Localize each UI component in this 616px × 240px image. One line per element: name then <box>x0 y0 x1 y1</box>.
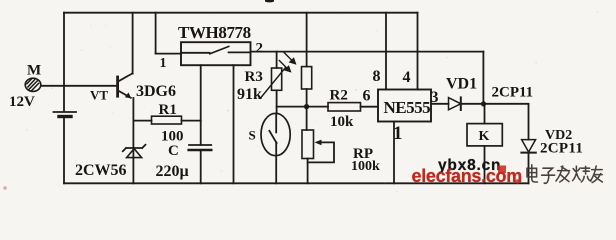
svg-text:4: 4 <box>403 69 411 86</box>
svg-text:R1: R1 <box>159 102 177 118</box>
svg-text:K: K <box>479 129 490 144</box>
svg-text:12V: 12V <box>9 94 35 110</box>
svg-text:91k: 91k <box>237 86 262 103</box>
svg-text:M: M <box>27 63 41 79</box>
svg-text:3: 3 <box>431 89 439 106</box>
svg-text:R2: R2 <box>330 88 348 104</box>
svg-text:NE555: NE555 <box>384 98 431 117</box>
svg-text:8: 8 <box>373 68 381 85</box>
svg-text:S: S <box>249 128 256 143</box>
svg-text:TWH8778: TWH8778 <box>178 23 251 42</box>
svg-text:C: C <box>168 143 179 159</box>
svg-text:VT: VT <box>90 88 108 103</box>
svg-text:2: 2 <box>256 41 264 57</box>
svg-text:6: 6 <box>363 88 371 105</box>
svg-text:220µ: 220µ <box>156 163 189 180</box>
svg-text:3DG6: 3DG6 <box>136 83 176 100</box>
svg-text:2CP11: 2CP11 <box>492 85 534 101</box>
svg-text:100k: 100k <box>351 159 380 174</box>
svg-text:10k: 10k <box>330 114 354 130</box>
svg-text:2CP11: 2CP11 <box>540 141 583 157</box>
svg-text:R3: R3 <box>245 69 263 85</box>
svg-text:2CW56: 2CW56 <box>75 162 127 179</box>
svg-text:1: 1 <box>160 56 167 71</box>
svg-text:1: 1 <box>393 123 403 144</box>
svg-text:VD1: VD1 <box>446 76 477 93</box>
